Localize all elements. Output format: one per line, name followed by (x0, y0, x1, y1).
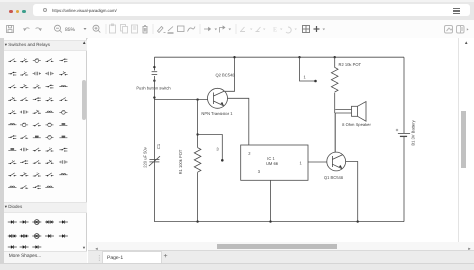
zoom in (93, 25, 100, 32)
wire bottom rail (154, 221, 404, 223)
circuit schematic (88, 38, 458, 242)
node Q1 emitter bottom (357, 220, 359, 222)
transistor Q2 (208, 88, 228, 108)
svg-text:E: E (273, 27, 277, 34)
label R1 value (178, 149, 183, 174)
resistor R2 (331, 57, 338, 113)
node stub junction (298, 56, 300, 58)
browser chrome bar (0, 0, 474, 20)
right side panel icons (445, 26, 453, 34)
wire Q1 emitter down (346, 162, 358, 222)
wire right rail lower (403, 137, 405, 222)
label R1 pin 3 (216, 146, 219, 151)
label C1 (156, 143, 161, 149)
wire pot pin1 stub (300, 57, 315, 81)
wire top rail (154, 56, 404, 58)
node IC pin3 bottom (269, 220, 271, 222)
label IC pin 3 (258, 169, 261, 174)
wire base of Q2 (154, 99, 207, 101)
copy (disabled) (121, 25, 128, 34)
label push button switch (136, 86, 171, 91)
wire IC pin 3 to ground rail (270, 180, 272, 221)
More Shapes bar (4, 251, 87, 263)
zoom out (55, 25, 62, 32)
svg-text:2: 2 (248, 151, 251, 156)
canvas area (88, 38, 474, 250)
svg-text:R1 100k POT: R1 100k POT (178, 149, 183, 174)
hamburger menu (453, 8, 461, 9)
format tools (158, 27, 166, 33)
wire Q2 emitter to IC pin 2 (228, 98, 249, 145)
trash (143, 26, 148, 34)
url bar (33, 4, 470, 16)
wire R1 upper lead (197, 100, 199, 148)
redo (36, 28, 42, 31)
label C1 value (143, 146, 148, 167)
resistor R1 (194, 148, 201, 222)
svg-text:1: 1 (304, 75, 307, 80)
wire left rail mid (153, 76, 155, 222)
node R1 bottom (196, 220, 198, 222)
wire Q1 collector to speaker node (334, 113, 336, 152)
transistor Q1 (327, 152, 346, 171)
left shapes panel (0, 38, 4, 263)
svg-text:C1: C1 (156, 143, 161, 149)
wire R1 wiper (198, 135, 223, 160)
push button switch S1 (152, 69, 158, 75)
tab bar (88, 250, 474, 264)
svg-text:R2 10k POT: R2 10k POT (339, 62, 362, 67)
svg-text:3: 3 (258, 169, 261, 174)
op-amp IC U1 UM66 box (241, 145, 308, 180)
label B1 3V Battery (411, 119, 416, 145)
node R1 wiper end (221, 159, 224, 162)
wire R2 to Q1 collector (334, 113, 336, 152)
wire IC pin 1 to Q1 base (308, 161, 327, 163)
grid icon (303, 26, 310, 33)
clipboard (disabled) (110, 24, 116, 33)
label NPN Transistor 1 (201, 111, 233, 116)
disabled dropdown icons group (240, 27, 297, 34)
connector tool (220, 26, 225, 32)
svg-text:Q1 BC548: Q1 BC548 (324, 175, 344, 180)
undo (23, 28, 29, 31)
label IC pin 1 (299, 161, 302, 166)
label Q1 BC548 (324, 175, 344, 180)
toolbar (0, 20, 474, 39)
label 8 Ohm Speaker (342, 122, 371, 127)
svg-text:8 Ohm Speaker: 8 Ohm Speaker (342, 122, 371, 127)
svg-text:NPN Transistor 1: NPN Transistor 1 (201, 111, 233, 116)
horizontal scrollbar row (88, 242, 474, 250)
svg-text:Push button switch: Push button switch (136, 86, 171, 91)
node left-lower (153, 80, 155, 82)
node stub end (314, 80, 317, 83)
arrow tool (204, 28, 211, 31)
svg-text:3: 3 (216, 146, 219, 151)
svg-text:Q2 BC548: Q2 BC548 (215, 73, 235, 78)
node R2 top (334, 56, 336, 58)
svg-text:B1 3V Battery: B1 3V Battery (411, 119, 416, 145)
canvas right border + vertical scrollbar (458, 38, 459, 242)
battery B1 (396, 129, 410, 137)
node left-upper (153, 66, 155, 68)
paste (disabled) (132, 25, 138, 33)
panel header: Switches and Relays (4, 40, 87, 51)
bottom strip (0, 263, 474, 270)
panel scrollbar (82, 80, 86, 120)
label IC 1 (267, 156, 275, 161)
wire left rail upper (153, 57, 155, 70)
plus (314, 26, 320, 32)
node R1 wiper junction (196, 133, 198, 135)
label Q2 BC548 (215, 73, 235, 78)
save (7, 26, 14, 33)
wire right rail upper (403, 57, 405, 133)
svg-text:1: 1 (299, 161, 302, 166)
node Q2 collector top (233, 56, 235, 58)
node R1 top tap (196, 98, 198, 100)
wire Q2 collector (225, 57, 235, 91)
label IC pin 2 (248, 151, 251, 156)
label R2 10k POT (339, 62, 362, 67)
label UM 66 (266, 161, 279, 166)
speaker LS1 (335, 102, 366, 122)
Diodes header (4, 202, 87, 213)
label pot pin 1 (304, 75, 307, 80)
node base junction (153, 96, 155, 98)
svg-text:220 uF 50v: 220 uF 50v (143, 146, 148, 167)
svg-text:85%: 85% (65, 27, 76, 33)
capacitor C1 (149, 156, 160, 166)
svg-text:UM 66: UM 66 (266, 161, 279, 166)
